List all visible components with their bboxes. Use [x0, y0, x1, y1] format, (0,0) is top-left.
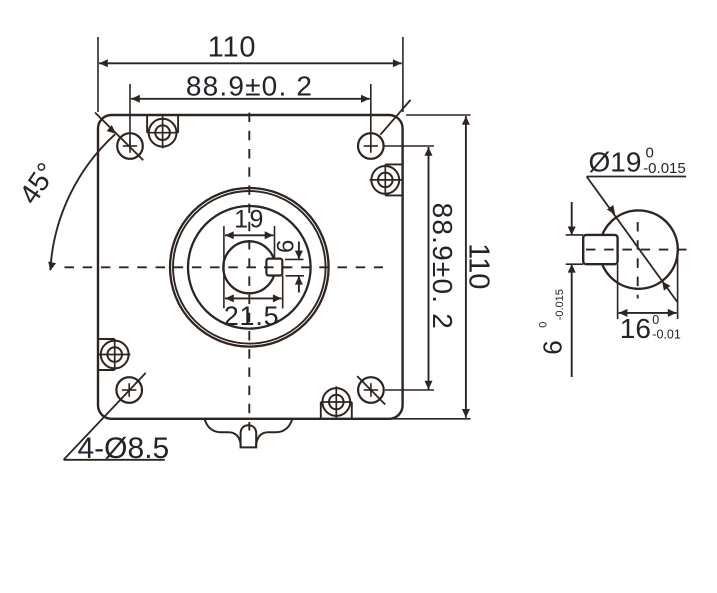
side shaft circle: [599, 210, 677, 288]
centerline over key: [264, 266, 290, 268]
dim 110 right extension lines: [406, 114, 471, 116]
bottom mounting tab wings: [205, 419, 293, 447]
45 deg arc arrows: [46, 262, 56, 272]
svg-text:110: 110: [463, 243, 495, 289]
dim 110 top arrows: [99, 59, 108, 67]
svg-text:6: 6: [538, 340, 568, 354]
dim dia19 arrows: [607, 205, 619, 217]
horizontal centerline: [65, 266, 384, 268]
dim 16 line: [619, 312, 677, 314]
svg-text:0: 0: [652, 313, 659, 327]
svg-text:88.9±0. 2: 88.9±0. 2: [427, 203, 458, 330]
svg-text:16: 16: [620, 313, 651, 344]
svg-text:88.9±0. 2: 88.9±0. 2: [186, 71, 313, 102]
keyway key block: [266, 259, 282, 276]
side dim 6 extension lines: [566, 234, 584, 236]
counterbore hole right: [371, 166, 399, 194]
mounting hole BL: [116, 377, 142, 403]
svg-text:6: 6: [273, 240, 300, 253]
svg-text:-0.015: -0.015: [643, 160, 686, 177]
label 4-d8.5 underline: [64, 459, 165, 461]
dim 21.5 extension line right: [282, 276, 284, 309]
side horizontal centerline: [586, 249, 692, 251]
svg-text:21.5: 21.5: [224, 301, 280, 331]
dim 88.9 top line: [131, 98, 370, 100]
mounting hole TL: [117, 133, 143, 159]
dim 6 line: [298, 242, 300, 259]
svg-text:0: 0: [538, 322, 550, 328]
shaft circle: [223, 241, 275, 293]
bottom tab dome: [241, 425, 257, 447]
side dim 6 line: [571, 202, 573, 234]
slash through hole BR: [357, 376, 385, 404]
dim 88.9 top arrows: [131, 95, 140, 103]
dim 19 extension lines: [223, 226, 225, 308]
mounting hole TR: [358, 133, 384, 159]
counterbore hole top: [149, 119, 177, 147]
45 deg arc: [50, 134, 115, 270]
dim 19 line: [225, 234, 274, 236]
counterbore hole left: [101, 341, 129, 369]
dim 6 arrows: [295, 251, 303, 260]
side dim 6 arrows: [568, 227, 576, 236]
slash through hole TL: [95, 113, 143, 161]
dim 21.5 line: [225, 297, 282, 299]
vertical centerline: [248, 113, 250, 431]
side key block: [583, 235, 617, 264]
side dim 6 label: [538, 289, 568, 355]
dim dia19 leader underline: [587, 176, 687, 178]
svg-text:4-Ø8.5: 4-Ø8.5: [78, 432, 170, 465]
dim 16 arrows: [619, 309, 628, 317]
dim 6 label: [273, 240, 300, 253]
dim dia19 diagonal line: [587, 177, 678, 303]
dim 110 right line: [465, 116, 467, 418]
dim 110 top line: [99, 62, 402, 64]
svg-text:-0.01: -0.01: [652, 328, 681, 342]
dim 88.9 right line: [428, 147, 430, 390]
dim 21.5 arrows: [225, 294, 234, 302]
dim 88.9 top extension lines: [129, 84, 131, 146]
slash at hole TR: [380, 100, 410, 135]
pilot boss inner ring: [173, 191, 326, 344]
dim 88.9 right extension lines: [384, 145, 435, 147]
dim 19 arrows: [225, 231, 234, 239]
dim 6 extension lines: [285, 258, 304, 260]
svg-text:110: 110: [208, 31, 257, 63]
leader through hole BL: [64, 373, 146, 460]
dim 88.9 right arrows: [425, 147, 433, 156]
svg-text:19: 19: [234, 206, 265, 234]
side vertical centerline: [637, 222, 639, 299]
dim 16 extension lines: [617, 264, 619, 319]
dim 110 top extension lines: [97, 37, 99, 112]
dim 110 right arrows: [462, 116, 470, 125]
svg-text:Ø19: Ø19: [589, 147, 642, 178]
flange outline: [98, 115, 403, 419]
mounting hole BR: [358, 377, 384, 403]
svg-text:-0.015: -0.015: [554, 289, 566, 320]
pilot boss outer circle: [170, 188, 329, 347]
counterbore hole bottom: [322, 388, 350, 416]
recess circle: [188, 206, 311, 329]
